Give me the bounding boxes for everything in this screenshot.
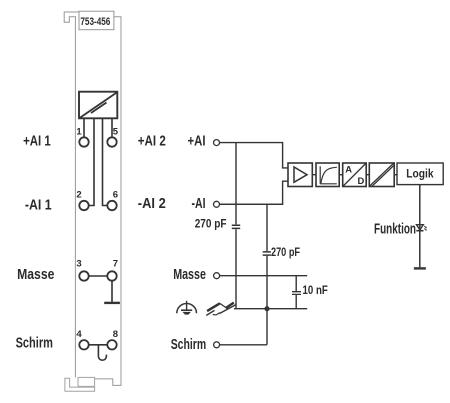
stub amplifier to filter bbox=[312, 174, 316, 176]
svg-text:6: 6 bbox=[113, 190, 118, 201]
wire rail to junction bbox=[234, 308, 307, 310]
svg-text:Schirm: Schirm bbox=[171, 337, 207, 353]
terminal 3 clamp circle bbox=[79, 271, 88, 280]
function LED cathode bar bbox=[416, 230, 423, 232]
terminal circle +AI bbox=[214, 140, 220, 146]
svg-text:4: 4 bbox=[76, 329, 82, 340]
svg-text:10 nF: 10 nF bbox=[303, 285, 328, 297]
amplifier U1 box bbox=[288, 163, 312, 187]
terminal 5 clamp circle bbox=[107, 137, 116, 146]
svg-text:+AI 2: +AI 2 bbox=[138, 133, 166, 150]
power jumper contact diagonal bbox=[80, 92, 117, 117]
A/D converter U3 box bbox=[343, 163, 367, 187]
module 753-456 body outline right bbox=[95, 17, 122, 386]
wire contact box to terminal 6 bbox=[103, 118, 108, 205]
pin number 8 bbox=[113, 329, 118, 340]
label Masse left bbox=[17, 267, 54, 283]
pin number 5 bbox=[113, 127, 119, 138]
module marking label box bbox=[79, 11, 114, 30]
svg-text:Logik: Logik bbox=[406, 166, 434, 180]
terminal 6 clamp circle bbox=[107, 201, 116, 210]
svg-text:8: 8 bbox=[113, 329, 118, 340]
ground bar below LED bbox=[414, 267, 426, 269]
svg-text:270 pF: 270 pF bbox=[195, 218, 227, 230]
wire contact box to terminal 5 bbox=[111, 118, 113, 137]
svg-text:D: D bbox=[358, 175, 365, 186]
label -AI node bbox=[192, 195, 206, 212]
svg-text:Funktion: Funktion bbox=[374, 222, 416, 238]
label -AI 1 bbox=[25, 196, 52, 213]
svg-text:Masse: Masse bbox=[173, 267, 206, 283]
svg-text:Masse: Masse bbox=[17, 267, 54, 283]
svg-text:5: 5 bbox=[113, 127, 119, 138]
power jumper contact second diagonal bbox=[91, 103, 107, 114]
isolation diagonal 2 bbox=[372, 165, 394, 186]
wire +AI to input stage bbox=[220, 142, 283, 144]
logic U5 box bbox=[397, 163, 443, 185]
capacitor C3 10 nF leads bbox=[295, 276, 297, 309]
function LED D1 triangle bbox=[417, 225, 424, 230]
value label 10 nF bbox=[303, 285, 328, 297]
filter U2 box bbox=[316, 163, 339, 187]
wire Masse rail bbox=[220, 275, 308, 277]
value label 270 pF C2 bbox=[271, 247, 300, 259]
module 753-456 body outline left bbox=[64, 12, 79, 377]
svg-text:7: 7 bbox=[113, 258, 118, 269]
node line B vertical x267 bbox=[266, 204, 268, 344]
stub filter to A/D bbox=[339, 174, 343, 176]
wire contact box to terminal 1 bbox=[83, 118, 85, 137]
stub isolation to logic bbox=[394, 174, 397, 176]
chassis ground bar of module bbox=[104, 302, 120, 304]
wire terminal 7 to chassis ground bbox=[111, 281, 113, 302]
svg-text:270 pF: 270 pF bbox=[271, 247, 300, 259]
label Masse node bbox=[173, 267, 206, 283]
input stage right edge upper with stub to amplifier bbox=[283, 142, 288, 168]
wire contact box to terminal 2 bbox=[89, 118, 94, 205]
functional earth symbol bbox=[177, 301, 197, 315]
svg-text:-AI 2: -AI 2 bbox=[138, 195, 166, 212]
label +AI 1 bbox=[23, 132, 51, 149]
DIN-rail foot middle block bbox=[78, 377, 95, 386]
label +AI 2 bbox=[138, 133, 166, 150]
terminal 8 clamp circle bbox=[107, 340, 116, 349]
svg-text:+AI: +AI bbox=[188, 133, 206, 150]
capacitor C3 10 nF plates bbox=[292, 292, 301, 295]
amplifier U1 triangle bbox=[294, 167, 307, 182]
filter U2 response curve bbox=[321, 167, 337, 183]
svg-text:Schirm: Schirm bbox=[16, 336, 53, 352]
logic label Logik bbox=[406, 166, 434, 180]
galvanic isolation U4 box bbox=[369, 163, 394, 187]
svg-text:-AI: -AI bbox=[192, 195, 206, 212]
pin number 2 bbox=[76, 190, 81, 201]
label Schirm left bbox=[16, 336, 53, 352]
stub A/D to isolation bbox=[366, 174, 369, 176]
capacitor C1 270 pF plates bbox=[232, 225, 240, 228]
pin number 1 bbox=[76, 127, 82, 138]
terminal circle Masse bbox=[214, 273, 220, 279]
isolation diagonal 1 bbox=[370, 164, 393, 186]
svg-text:753-456: 753-456 bbox=[80, 16, 110, 28]
svg-text:-AI 1: -AI 1 bbox=[25, 196, 52, 213]
wire terminal 4 to terminal 8 bbox=[89, 344, 108, 346]
shield spring contact hook bbox=[98, 345, 106, 360]
filter U2 axes bbox=[320, 166, 337, 184]
pin number 3 bbox=[76, 258, 81, 269]
wire logic to function LED bbox=[419, 185, 421, 268]
A/D letter D bbox=[358, 175, 365, 186]
DIN-rail foot left hook bbox=[65, 378, 95, 391]
value label 270 pF C1 bbox=[195, 218, 227, 230]
terminal circle -AI bbox=[214, 201, 220, 207]
pin number 4 bbox=[76, 329, 82, 340]
terminal 7 clamp circle bbox=[107, 271, 116, 280]
wire terminal 3 to terminal 7 bbox=[89, 275, 108, 277]
input stage right edge lower with stub to amplifier bbox=[220, 181, 289, 205]
junction dot bbox=[264, 306, 269, 311]
svg-text:A: A bbox=[345, 164, 352, 175]
A/D converter diagonal bbox=[343, 164, 366, 187]
terminal 1 clamp circle bbox=[79, 137, 88, 146]
pin number 6 bbox=[113, 190, 118, 201]
terminal 2 clamp circle bbox=[79, 201, 88, 210]
terminal 4 clamp circle bbox=[79, 340, 88, 349]
terminal circle Schirm bbox=[214, 342, 220, 348]
label Funktion bbox=[374, 222, 416, 238]
label +AI node bbox=[188, 133, 206, 150]
wire Schirm to node B bbox=[220, 344, 267, 346]
label -AI 2 bbox=[138, 195, 166, 212]
svg-text:3: 3 bbox=[76, 258, 81, 269]
svg-text:1: 1 bbox=[76, 127, 82, 138]
power jumper contact box bbox=[79, 92, 117, 119]
A/D letter A bbox=[345, 164, 352, 175]
svg-text:+AI 1: +AI 1 bbox=[23, 132, 51, 149]
wire -AI to input stage bbox=[220, 203, 283, 205]
node line A vertical x236 bbox=[235, 143, 237, 309]
module marking text 753-456 bbox=[80, 16, 110, 28]
pin number 7 bbox=[113, 258, 118, 269]
carrier rail symbol bbox=[206, 303, 236, 316]
capacitor C2 270 pF plates bbox=[263, 252, 271, 255]
label Schirm node bbox=[171, 337, 207, 353]
svg-text:2: 2 bbox=[76, 190, 81, 201]
function LED light arrows bbox=[424, 226, 426, 230]
